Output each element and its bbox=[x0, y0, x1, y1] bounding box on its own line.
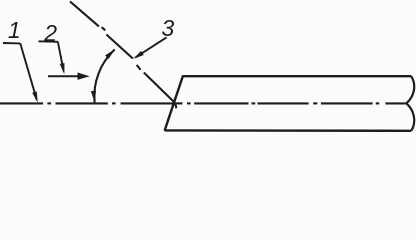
angle arc lower arrowhead bbox=[91, 91, 96, 103]
rod slanted left end edge bbox=[165, 75, 184, 130]
wire centerline axis: long dash bbox=[194, 102, 248, 104]
svg-text:2: 2 bbox=[43, 20, 57, 46]
wire centerline axis: long dash bbox=[258, 102, 309, 104]
wire beam axis diagonal: long dash 3 bbox=[144, 73, 177, 109]
leader line 1 bbox=[20, 43, 37, 100]
wire centerline axis: short dash after crossing bbox=[175, 102, 183, 104]
movement direction arrow shaft bbox=[48, 75, 80, 77]
wire beam axis diagonal: dot 1 bbox=[102, 27, 106, 30]
svg-text:3: 3 bbox=[162, 15, 175, 41]
wire centerline axis: long dash bbox=[385, 102, 405, 104]
wire beam axis diagonal: long dash 1 bbox=[70, 1, 99, 26]
leader line 3 bbox=[136, 37, 167, 57]
leader 3 arrowhead bbox=[133, 51, 144, 59]
wire beam axis diagonal: long dash 2 bbox=[106, 35, 132, 59]
angle dimension arc bbox=[94, 49, 114, 102]
wire centerline axis: dot bbox=[376, 102, 380, 104]
wire centerline axis: long dash bbox=[121, 102, 174, 104]
wire beam axis diagonal: dot 2 bbox=[137, 65, 141, 70]
wire centerline axis: dot bbox=[252, 102, 256, 104]
wire centerline axis: dot bbox=[112, 102, 116, 104]
movement direction arrowhead bbox=[78, 73, 90, 80]
wire centerline axis: long dash bbox=[0, 102, 43, 104]
leader line 2 bbox=[58, 42, 64, 72]
wire centerline axis: long dash bbox=[56, 102, 108, 104]
rod top edge bbox=[183, 75, 411, 77]
label 1 underline bbox=[3, 42, 20, 44]
leader 1 arrowhead bbox=[32, 91, 37, 102]
rod right break (S-curve) bbox=[406, 76, 414, 131]
wire centerline axis: dot bbox=[47, 102, 51, 104]
label 2 underline bbox=[39, 40, 58, 43]
leader 2 arrowhead bbox=[60, 63, 65, 74]
wire centerline axis: dot bbox=[187, 102, 191, 104]
svg-text:1: 1 bbox=[8, 17, 21, 43]
wire centerline axis: dot bbox=[313, 102, 317, 104]
wire centerline axis: long dash bbox=[321, 102, 373, 104]
angle arc upper arrowhead bbox=[105, 49, 115, 59]
rod bottom edge bbox=[164, 129, 411, 132]
